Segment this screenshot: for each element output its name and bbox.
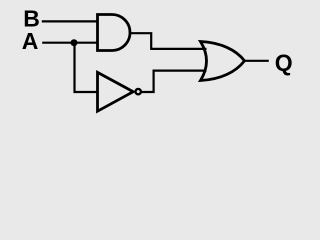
wire A branch down to NOT gate input	[75, 43, 99, 92]
junction dot on A wire	[71, 39, 78, 46]
svg-text:A: A	[22, 28, 39, 54]
wire OR output to Q	[244, 60, 269, 62]
wire AND output to OR gate top input	[130, 33, 207, 49]
svg-text:Q: Q	[275, 50, 293, 76]
NOT gate (inverter) triangle	[98, 72, 134, 111]
NOT gate bubble	[136, 89, 141, 94]
AND gate	[98, 15, 131, 51]
wire A to AND gate bottom input	[42, 42, 97, 44]
wire NOT output to OR gate bottom input	[141, 71, 207, 92]
OR gate	[201, 42, 245, 81]
wire B to AND gate top input	[42, 20, 98, 22]
